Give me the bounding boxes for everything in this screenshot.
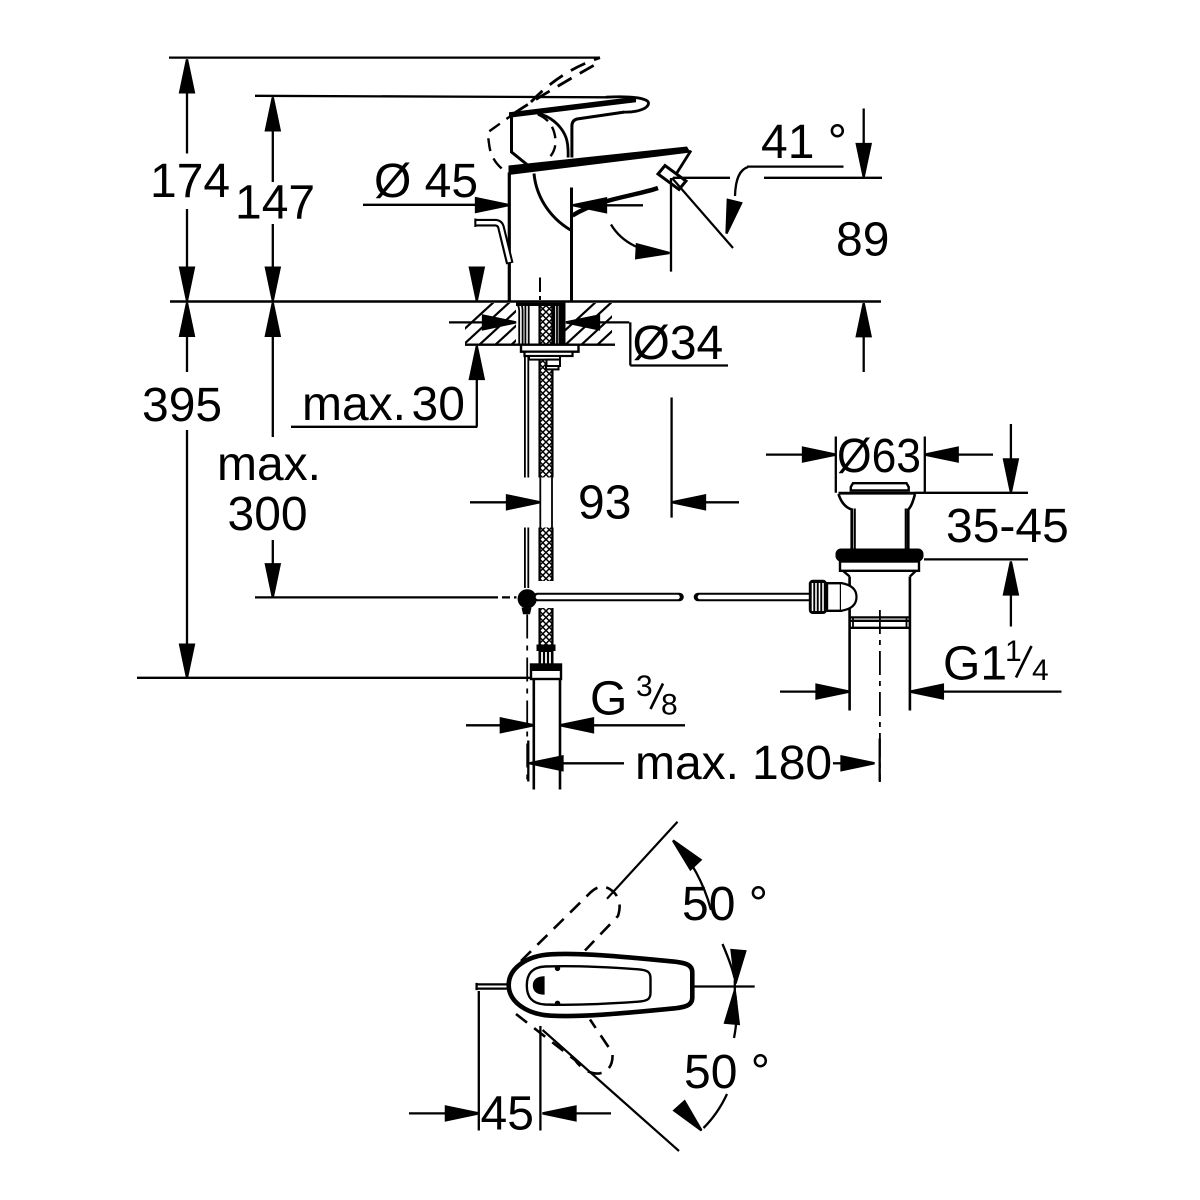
dimension 45 extension lines xyxy=(479,991,541,1131)
drain lower body walls xyxy=(850,577,910,711)
stud gap walls at 93 dim xyxy=(540,478,552,528)
aerator axis line xyxy=(670,178,672,272)
svg-text:max.: max. xyxy=(217,438,321,491)
arrow 395 bottom xyxy=(180,645,194,678)
spout tip end edge xyxy=(674,151,691,178)
svg-text:max.: max. xyxy=(635,737,739,790)
cartridge dome arc xyxy=(538,114,569,158)
dimension 174 line xyxy=(186,92,188,268)
svg-text:4: 4 xyxy=(1032,654,1049,687)
pop-up pull rod xyxy=(476,223,510,264)
pop-up rod vertical pair xyxy=(525,356,528,588)
93 dimension right xyxy=(672,495,705,509)
drain flange top xyxy=(839,492,916,495)
dimension Ø63 line left xyxy=(766,453,806,455)
shank dark sleeve xyxy=(559,303,566,345)
max180 right arrow xyxy=(833,762,843,764)
G3/8 hex xyxy=(539,651,554,665)
svg-text:300: 300 xyxy=(228,488,308,541)
faucet lever blade top edge (solid, closed position) xyxy=(509,97,636,118)
svg-text:395: 395 xyxy=(142,379,222,432)
35-45 lower arrow xyxy=(1004,562,1018,595)
faucet lever pivot block left edge xyxy=(512,115,531,168)
top view handle outer outline xyxy=(509,954,693,1016)
pop-up horizontal rod right piece xyxy=(698,593,809,602)
G3/8 dimension xyxy=(466,724,502,726)
body left edge xyxy=(508,173,511,302)
arrow Ø34 left xyxy=(483,316,516,330)
dimension max300 line xyxy=(272,336,274,566)
svg-text:174: 174 xyxy=(150,155,230,208)
G1/4 slash xyxy=(1016,646,1032,678)
top view upper diagonal (50 deg) xyxy=(607,822,678,899)
mounting nut xyxy=(525,352,573,356)
93 extension line xyxy=(670,398,672,518)
G3/8 pipe xyxy=(534,679,560,790)
faucet centerline xyxy=(539,278,541,301)
dimension 89 extension bottom xyxy=(863,336,865,372)
spout top edge (thick band) xyxy=(509,147,691,176)
arrow Ø45 left xyxy=(476,198,509,212)
nut step 1 xyxy=(529,356,560,360)
top view handle dashed raised position upper xyxy=(521,887,620,961)
spout bottom edge xyxy=(573,188,659,216)
svg-text:35-45: 35-45 xyxy=(946,500,1069,553)
drain centerline xyxy=(879,610,881,782)
top view lower diagonal (50 deg) xyxy=(543,1030,679,1151)
G3/8 nut xyxy=(531,665,561,680)
top view stem xyxy=(477,983,510,990)
svg-text:8: 8 xyxy=(661,689,678,722)
max180 left arrow xyxy=(530,756,563,770)
lower 50 arrowheads xyxy=(725,990,742,1024)
threaded stud below ball xyxy=(540,608,552,645)
arrow 174 bottom xyxy=(180,268,194,301)
drain neck inner walls xyxy=(855,509,906,549)
arrow 89 top xyxy=(857,144,871,177)
dimension Ø63 extension lines xyxy=(836,437,925,493)
upper 50 arc piece2 xyxy=(723,944,735,978)
max180 ticks xyxy=(528,739,879,782)
drain chamfers xyxy=(843,571,916,577)
drain knob collar xyxy=(827,583,841,611)
overall height reference line (top of raised lever) xyxy=(169,56,600,58)
countertop hatching right xyxy=(548,300,662,346)
93 dimension left xyxy=(470,501,508,503)
arrow Ø45 right xyxy=(573,198,606,212)
hose end reference line 395 xyxy=(137,677,530,679)
top view handle dots xyxy=(555,966,560,971)
raised lever (dashed) upper edge xyxy=(531,58,600,102)
raised lever (dashed) neck arc xyxy=(538,115,556,158)
Ø34 leader xyxy=(566,322,728,365)
arrow 89 bottom xyxy=(857,303,871,336)
raised lever (dashed) lower edge xyxy=(515,63,599,113)
svg-text:G1: G1 xyxy=(943,638,1007,691)
threaded stud middle xyxy=(540,528,552,582)
countertop top line xyxy=(170,300,881,303)
shank hose tubes in hole xyxy=(517,304,558,345)
svg-text:93: 93 xyxy=(578,477,631,530)
top view centerline right xyxy=(693,979,755,999)
raised lever (dashed) heel outline xyxy=(488,112,518,175)
svg-text:Ø 45: Ø 45 xyxy=(374,155,478,208)
drain seal band xyxy=(836,549,924,562)
countertop hatching left xyxy=(446,300,560,346)
dimension Ø45 line left xyxy=(363,204,478,206)
svg-text:Ø34: Ø34 xyxy=(633,317,724,370)
lower 50 arc piece1 xyxy=(734,996,737,1038)
svg-text:1: 1 xyxy=(1005,635,1022,668)
35-45 reference line xyxy=(915,493,1028,560)
41-degree diagonal xyxy=(672,178,733,248)
upper 50 arrowheads xyxy=(668,836,701,870)
lever-tip height reference line 147 xyxy=(255,96,608,98)
spout root arc xyxy=(534,174,571,231)
G3/8 hose collar xyxy=(537,645,556,652)
threaded stud (braided) upper xyxy=(540,303,552,478)
max30 lower arrow xyxy=(470,346,484,379)
arrow 395 top xyxy=(180,303,194,336)
dimension Ø45 line right xyxy=(604,204,643,206)
arrow 174 top xyxy=(180,59,194,92)
aerator face xyxy=(658,166,686,190)
max30 upper arrow xyxy=(470,268,484,301)
drain plug cap xyxy=(851,483,909,490)
hose elbow reference line max300 xyxy=(255,596,517,598)
G1 1/4 dimension xyxy=(780,690,818,692)
countertop bottom line right xyxy=(579,344,616,346)
upper 50 arc piece1 xyxy=(674,842,711,910)
deck hole top band xyxy=(516,303,566,306)
pop-up horizontal rod left piece xyxy=(537,593,680,602)
top view handle dashed raised position lower xyxy=(516,1014,613,1074)
arrow Ø34 right xyxy=(566,316,599,330)
body right edge xyxy=(570,188,573,302)
svg-text:50 °: 50 ° xyxy=(684,1046,770,1099)
svg-text:41 °: 41 ° xyxy=(761,116,847,169)
top view handle inner line xyxy=(527,966,651,1005)
drain groove xyxy=(850,617,910,627)
lower 50 arc piece2 xyxy=(704,1094,728,1128)
svg-text:180: 180 xyxy=(752,737,832,790)
max30 leader xyxy=(291,379,477,427)
top view handle black mark xyxy=(533,976,545,994)
41-degree arc xyxy=(735,167,748,196)
dimension Ø63 line right xyxy=(955,453,993,455)
drain washer xyxy=(840,562,919,571)
svg-text:Ø63: Ø63 xyxy=(837,430,921,483)
pop-up ball joint xyxy=(518,589,537,608)
svg-text:3: 3 xyxy=(636,670,653,703)
faucet lever underside xyxy=(572,112,624,157)
41-degree underline xyxy=(747,165,844,167)
faucet lever tip cap xyxy=(606,97,649,112)
svg-text:G: G xyxy=(590,673,627,726)
svg-text:50 °: 50 ° xyxy=(682,878,768,931)
nut step 3 xyxy=(546,366,559,369)
41-degree arc arrowhead xyxy=(720,200,741,235)
stream angle arc xyxy=(611,225,664,253)
svg-text:89: 89 xyxy=(836,214,889,267)
pop-up rod centerline xyxy=(526,615,528,783)
drain socket arc xyxy=(841,583,857,611)
41-degree reference line from aerator xyxy=(673,177,882,179)
nut step 2 xyxy=(547,360,561,366)
dimension 147 line xyxy=(272,131,274,269)
svg-text:max.: max. xyxy=(302,378,406,431)
svg-text:147: 147 xyxy=(235,177,315,230)
dimension 45 arrows xyxy=(409,1112,447,1114)
arrow 147 bottom xyxy=(266,268,280,301)
svg-text:45: 45 xyxy=(481,1088,534,1141)
arrow max300 bottom xyxy=(266,564,280,597)
svg-text:30: 30 xyxy=(412,378,465,431)
drain flange sides xyxy=(839,494,852,549)
G3/8 slash xyxy=(651,684,664,710)
stream angle arrowhead xyxy=(636,244,670,260)
arrow 147 top xyxy=(266,97,280,130)
dimension 395 line xyxy=(186,336,188,646)
drain knob xyxy=(809,580,827,614)
35-45 upper arrow xyxy=(1010,424,1012,460)
mounting washer xyxy=(521,345,579,352)
countertop bottom line left xyxy=(465,344,521,346)
dimension 89 extension top xyxy=(863,109,865,146)
arrow max300 top xyxy=(266,303,280,336)
